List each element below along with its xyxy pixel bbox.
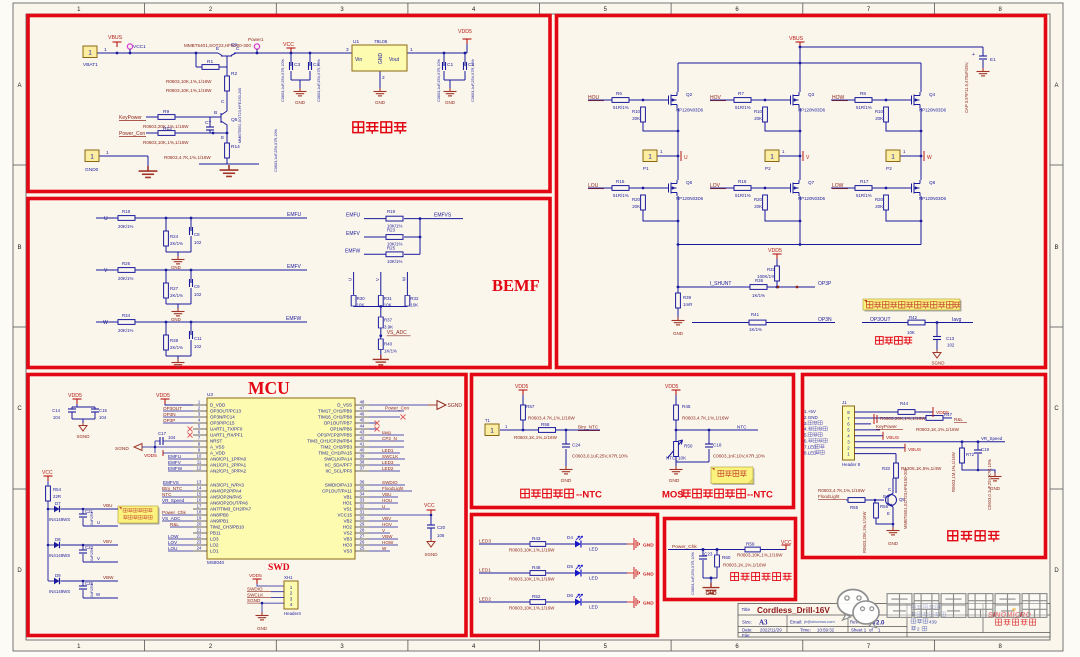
svg-text:36: 36 [360, 480, 365, 485]
svg-text:OP3N: OP3N [818, 317, 832, 323]
svg-text:104: 104 [168, 435, 176, 440]
svg-text:GND0: GND0 [85, 167, 99, 173]
svg-text:A3: A3 [759, 619, 768, 627]
svg-text:UART1_TX/PF0: UART1_TX/PF0 [210, 427, 243, 432]
svg-text:AN8/PB0: AN8/PB0 [210, 513, 229, 518]
svg-text:R7: R7 [738, 91, 744, 96]
svg-text:B: B [1054, 245, 1058, 251]
svg-text:R33: R33 [882, 466, 891, 471]
svg-text:R23: R23 [387, 228, 396, 233]
svg-text:B: B [214, 110, 217, 116]
svg-text:TIM2_CH1/PA15: TIM2_CH1/PA15 [318, 451, 352, 456]
svg-text:48: 48 [360, 400, 365, 405]
svg-text:U: U [97, 520, 100, 525]
svg-text:R19: R19 [387, 209, 396, 214]
svg-text:R0603,10K,1%,1/16W: R0603,10K,1%,1/16W [166, 79, 212, 84]
svg-text:R0603,4.7K,1%,1/16W: R0603,4.7K,1%,1/16W [818, 488, 865, 493]
svg-text:HOW: HOW [832, 95, 845, 101]
svg-text:VBV: VBV [382, 516, 392, 521]
svg-text:R14: R14 [231, 144, 240, 150]
svg-text:LED3: LED3 [479, 539, 491, 545]
svg-text:GND: GND [445, 100, 456, 105]
svg-text:SGND: SGND [448, 403, 463, 409]
svg-text:4: 4 [290, 602, 293, 607]
svg-text:A: A [1054, 83, 1058, 89]
svg-text:OP3OUT/PC13: OP3OUT/PC13 [210, 409, 242, 414]
svg-text:C18: C18 [713, 443, 722, 448]
svg-text:W: W [927, 155, 932, 161]
svg-text:R55: R55 [850, 505, 859, 510]
svg-text:C7: C7 [205, 120, 211, 126]
svg-text:104: 104 [53, 415, 61, 420]
svg-text:KeyPower: KeyPower [876, 424, 897, 429]
svg-text:3.: 3. [804, 421, 808, 426]
svg-text:EMFW: EMFW [168, 466, 183, 471]
svg-text:E1: E1 [990, 57, 996, 62]
svg-text:R8: R8 [860, 91, 866, 96]
svg-text:18: 18 [197, 510, 202, 515]
svg-text:C: C [1054, 406, 1059, 412]
svg-text:C0603,1uF,25V,X7R,10%: C0603,1uF,25V,X7R,10% [281, 58, 285, 102]
svg-text:U: U [382, 504, 385, 509]
svg-text:R2: R2 [231, 71, 237, 77]
svg-text:D: D [17, 568, 22, 574]
svg-text:33: 33 [360, 498, 365, 503]
svg-text:C0603,1uF,25V,X7R,10%: C0603,1uF,25V,X7R,10% [471, 58, 475, 102]
svg-text:LED1: LED1 [382, 448, 394, 453]
svg-text:V: V [375, 278, 380, 281]
svg-text:I_SHUNT: I_SHUNT [710, 281, 731, 287]
svg-text:OP3N: OP3N [163, 412, 176, 417]
svg-text:R48: R48 [532, 565, 541, 570]
svg-text:1K/1%: 1K/1% [749, 327, 762, 332]
svg-text:VDD5: VDD5 [458, 29, 472, 35]
svg-text:LED: LED [589, 547, 599, 552]
svg-text:LED3: LED3 [382, 460, 394, 465]
svg-text:XH1: XH1 [284, 575, 293, 580]
svg-text:E: E [216, 46, 219, 52]
svg-text:HO1: HO1 [343, 501, 353, 506]
svg-text:R0603,1K,1%,1/16W: R0603,1K,1%,1/16W [723, 563, 767, 568]
svg-text:3.9K: 3.9K [384, 325, 393, 330]
svg-text:PB11: PB11 [210, 531, 221, 536]
svg-text:AN7/TIM3_CH2/PA7: AN7/TIM3_CH2/PA7 [210, 507, 252, 512]
svg-text:A_VDD: A_VDD [210, 451, 226, 456]
svg-text:LED: LED [589, 576, 599, 581]
svg-text:BEMF: BEMF [492, 276, 540, 295]
svg-text:37: 37 [360, 466, 365, 471]
svg-text:R47: R47 [944, 412, 953, 417]
svg-text:LED1: LED1 [479, 568, 491, 574]
svg-text:R60: R60 [722, 555, 731, 560]
svg-text:HO2: HO2 [343, 525, 353, 530]
svg-text:C8: C8 [194, 232, 200, 237]
svg-text:AN0/CP1_1P/PA0: AN0/CP1_1P/PA0 [210, 457, 247, 462]
svg-text:R40: R40 [384, 342, 393, 347]
svg-text:AN6/OP2OUT/PA6: AN6/OP2OUT/PA6 [210, 501, 248, 506]
svg-text:28: 28 [360, 528, 365, 533]
svg-text:R0603,4.7K,1%,1/16W: R0603,4.7K,1%,1/16W [528, 416, 575, 421]
svg-text:HOU: HOU [588, 95, 600, 101]
svg-text:42: 42 [360, 436, 365, 441]
svg-text:File:: File: [742, 633, 750, 638]
svg-text:27: 27 [360, 534, 365, 539]
svg-text:OP3OUT: OP3OUT [870, 317, 891, 323]
svg-text:R50: R50 [684, 444, 693, 449]
svg-text:VBAT1: VBAT1 [83, 62, 98, 68]
svg-text:VS3: VS3 [343, 549, 352, 554]
svg-text:78L05: 78L05 [374, 39, 388, 45]
svg-text:OP3P: OP3P [818, 281, 832, 287]
svg-text:GND: GND [561, 478, 572, 484]
svg-text:12: 12 [197, 466, 202, 471]
svg-text:R13: R13 [163, 126, 172, 132]
svg-text:LOU: LOU [168, 546, 177, 551]
svg-text:31: 31 [360, 510, 365, 515]
svg-text:R30: R30 [357, 296, 366, 301]
svg-text:R25: R25 [387, 246, 396, 251]
svg-text:TIM17_CH1/PB9: TIM17_CH1/PB9 [318, 409, 353, 414]
svg-text:3: 3 [346, 47, 349, 53]
svg-text:LOW: LOW [832, 183, 844, 189]
svg-text:VS_ADC: VS_ADC [387, 330, 407, 336]
svg-text:IIC_SCL/PF6: IIC_SCL/PF6 [325, 469, 352, 474]
svg-text:V: V [97, 556, 100, 561]
svg-text:Power1: Power1 [248, 37, 264, 42]
svg-text:LO3: LO3 [210, 537, 219, 542]
svg-text:SWCLK/PA14: SWCLK/PA14 [324, 457, 352, 462]
svg-text:10:59:32: 10:59:32 [817, 628, 835, 633]
svg-text:GND: GND [643, 601, 654, 607]
svg-text:22: 22 [197, 534, 202, 539]
svg-text:R59: R59 [746, 542, 755, 547]
svg-text:R0603,20K,1%,1/16W: R0603,20K,1%,1/16W [862, 512, 867, 553]
svg-text:KeyPower: KeyPower [119, 115, 142, 121]
svg-text:R0603,10K,1%,1/16W: R0603,10K,1%,1/16W [509, 606, 555, 611]
svg-text:R&L: R&L [170, 522, 179, 527]
svg-text:VDD5: VDD5 [249, 573, 262, 579]
svg-text:EMFV: EMFV [168, 460, 182, 465]
svg-text:FloodLight: FloodLight [818, 494, 840, 499]
svg-text:R31: R31 [384, 296, 393, 301]
svg-text:R42: R42 [909, 315, 918, 320]
svg-text:NTC: NTC [162, 492, 172, 497]
svg-text:OP1P/CP2P/PB5: OP1P/CP2P/PB5 [317, 433, 352, 438]
svg-text:R15: R15 [616, 179, 625, 184]
svg-text:38: 38 [360, 460, 365, 465]
svg-text:10K: 10K [410, 303, 418, 308]
svg-text:SGND: SGND [247, 598, 261, 603]
svg-text:Cordless_Drill-16V: Cordless_Drill-16V [757, 606, 830, 615]
svg-text:VCC15: VCC15 [337, 513, 352, 518]
svg-text:LOV: LOV [710, 183, 721, 189]
svg-text:OP3OUT: OP3OUT [163, 406, 182, 411]
svg-text:SGND: SGND [931, 361, 945, 366]
svg-text:45: 45 [360, 418, 365, 423]
svg-text:C23: C23 [704, 552, 713, 557]
svg-text:U: U [684, 155, 688, 161]
svg-text:R27: R27 [170, 286, 179, 291]
svg-text:22R: 22R [53, 494, 61, 499]
svg-text:1: 1 [106, 150, 109, 156]
svg-text:EMFVS: EMFVS [163, 480, 179, 485]
svg-text:R18: R18 [122, 209, 131, 214]
svg-text:13: 13 [197, 480, 202, 485]
svg-text:R39: R39 [683, 295, 692, 300]
svg-text:AN2/CP1_3P/PA2: AN2/CP1_3P/PA2 [210, 469, 247, 474]
svg-text:SWCLK: SWCLK [247, 592, 264, 597]
svg-text:GND: GND [673, 331, 684, 336]
svg-text:2K/1%: 2K/1% [170, 241, 183, 246]
svg-text:GND: GND [378, 53, 384, 65]
svg-text:SGND: SGND [76, 434, 90, 439]
svg-text:R0603,10K,1%,1/16W: R0603,10K,1%,1/16W [509, 577, 555, 582]
svg-text:U3: U3 [207, 392, 213, 397]
svg-text:MMBT5551,SOT23,HFE150-200: MMBT5551,SOT23,HFE150-200 [903, 467, 908, 529]
svg-text:R9: R9 [163, 109, 169, 115]
svg-text:A: A [17, 83, 21, 89]
svg-text:2.GND: 2.GND [804, 415, 819, 420]
svg-text:R37: R37 [384, 318, 393, 323]
svg-text:2022/11/29: 2022/11/29 [760, 628, 782, 633]
svg-text:NRST: NRST [210, 439, 223, 444]
svg-text:VDD5: VDD5 [68, 393, 82, 399]
svg-text:Vin: Vin [355, 57, 362, 63]
svg-text:LOW: LOW [168, 534, 179, 539]
svg-text:C0603,1uF,25V,X7R,10%: C0603,1uF,25V,X7R,10% [691, 551, 695, 595]
svg-text:LED: LED [589, 605, 599, 610]
svg-text:C11: C11 [194, 336, 202, 341]
svg-text:C0603,0.1uF,25V,X7R,10%: C0603,0.1uF,25V,X7R,10% [572, 454, 628, 459]
svg-text:R44: R44 [900, 401, 909, 406]
svg-text:C20: C20 [437, 525, 446, 530]
svg-text:SGND: SGND [424, 552, 438, 557]
svg-text:Q2: Q2 [686, 92, 693, 97]
svg-text:R36: R36 [755, 278, 764, 283]
svg-text:GND: GND [643, 572, 654, 578]
svg-text:2K/1%: 2K/1% [170, 293, 183, 298]
svg-text:Header4: Header4 [284, 611, 301, 616]
svg-text:LOV: LOV [168, 540, 178, 545]
svg-text:Header 8: Header 8 [842, 462, 861, 467]
svg-text:44: 44 [360, 424, 365, 429]
svg-text:D_VDD: D_VDD [210, 403, 226, 408]
svg-text:R0603,1K,1%,1/16W: R0603,1K,1%,1/16W [916, 427, 960, 432]
svg-text:FloodLight: FloodLight [382, 486, 404, 491]
svg-text:Size:: Size: [742, 620, 752, 625]
svg-text:OP3P/PC15: OP3P/PC15 [210, 421, 235, 426]
svg-text:43: 43 [360, 430, 365, 435]
svg-text:EMFW: EMFW [286, 316, 302, 322]
svg-text:D_VSS: D_VSS [337, 403, 352, 408]
svg-text:Q6: Q6 [686, 180, 693, 185]
svg-text:AN9/PB1: AN9/PB1 [210, 519, 229, 524]
svg-text:P3: P3 [886, 166, 892, 171]
svg-text:--NTC: --NTC [747, 490, 773, 501]
svg-text:C: C [888, 487, 891, 492]
svg-text:47: 47 [360, 406, 365, 411]
svg-text:OP3N/PC14: OP3N/PC14 [210, 415, 235, 420]
svg-text:24: 24 [197, 546, 202, 551]
svg-text:GND: GND [171, 265, 181, 270]
svg-text:SGND: SGND [115, 446, 129, 452]
svg-text:VB1: VB1 [343, 495, 352, 500]
svg-text:Q8: Q8 [929, 180, 936, 185]
svg-text:VS2: VS2 [343, 531, 352, 536]
svg-text:10K: 10K [907, 330, 915, 335]
svg-text:SWDIO: SWDIO [247, 587, 263, 592]
svg-text:R0603,10K,1%,1/16W: R0603,10K,1%,1/16W [509, 548, 555, 553]
svg-text:Btry_NTC: Btry_NTC [162, 486, 183, 491]
svg-text:34: 34 [360, 492, 365, 497]
svg-text:R72: R72 [966, 452, 975, 457]
svg-text:C0603,1uF,25V,X7R,10%: C0603,1uF,25V,X7R,10% [317, 58, 321, 102]
svg-text:jh@sinomos.com: jh@sinomos.com [803, 619, 835, 624]
svg-text:OP1OUT/PB7: OP1OUT/PB7 [324, 421, 353, 426]
svg-text:GND: GND [888, 541, 899, 546]
svg-text:104: 104 [99, 415, 107, 420]
svg-text:U: U [348, 278, 353, 281]
svg-text:E: E [887, 511, 890, 516]
svg-text:1: 1 [104, 47, 107, 53]
svg-text:23: 23 [197, 540, 202, 545]
svg-text:10K: 10K [357, 303, 365, 308]
svg-text:C0603,0.1uF,25V,X7R,10%: C0603,0.1uF,25V,X7R,10% [987, 459, 992, 510]
svg-text:VDD5: VDD5 [156, 393, 170, 399]
svg-text:VCC: VCC [283, 42, 294, 48]
svg-text:15: 15 [197, 492, 202, 497]
svg-text:LED2: LED2 [382, 466, 394, 471]
svg-text:D5: D5 [567, 564, 573, 569]
svg-text:Iavg: Iavg [952, 317, 962, 323]
svg-text:Q7: Q7 [808, 180, 815, 185]
svg-text:MMBT5551,SOT23,HFE150-200: MMBT5551,SOT23,HFE150-200 [238, 88, 242, 143]
svg-text:26: 26 [360, 540, 365, 545]
svg-text:GND: GND [669, 478, 680, 484]
svg-text:Title: Title [742, 607, 751, 612]
svg-text:P1: P1 [643, 166, 649, 171]
svg-text:VS1: VS1 [343, 507, 352, 512]
svg-text:11: 11 [197, 460, 202, 465]
svg-text:TIM2_CH3/PB10: TIM2_CH3/PB10 [210, 525, 245, 530]
svg-text:R0603,4.7K,1%,1/16W: R0603,4.7K,1%,1/16W [164, 155, 211, 160]
svg-text:2: 2 [290, 591, 293, 596]
svg-text:VDD5: VDD5 [144, 453, 157, 459]
svg-text:CP1OUT/PA11: CP1OUT/PA11 [322, 489, 352, 494]
svg-text:HOV: HOV [382, 522, 393, 527]
svg-text:TIM2_CH2/PB3: TIM2_CH2/PB3 [320, 445, 352, 450]
svg-text:MS8040: MS8040 [207, 560, 225, 565]
svg-text:2K/1%: 2K/1% [170, 345, 183, 350]
svg-text:VB2: VB2 [343, 519, 352, 524]
svg-text:R6: R6 [616, 91, 622, 96]
svg-text:106: 106 [437, 533, 445, 538]
svg-text:VDD5: VDD5 [515, 384, 529, 390]
svg-text:R54: R54 [53, 487, 62, 492]
svg-text:R0603,10K,1%,1/16W: R0603,10K,1%,1/16W [143, 140, 189, 145]
svg-text:GND: GND [375, 100, 386, 105]
svg-text:1: 1 [410, 47, 413, 53]
svg-text:D6: D6 [567, 593, 573, 598]
svg-text:SWCLK: SWCLK [382, 454, 399, 459]
svg-text:OP3P: OP3P [163, 418, 175, 423]
svg-text:R0603,1M,1%,1/16W: R0603,1M,1%,1/16W [951, 452, 956, 492]
svg-text:VCC: VCC [424, 503, 435, 509]
svg-text:21: 21 [197, 528, 202, 533]
svg-text:20: 20 [197, 522, 202, 527]
svg-text:P2: P2 [765, 166, 771, 171]
svg-text:VBUS: VBUS [908, 447, 921, 453]
svg-text:C17: C17 [158, 431, 167, 436]
svg-text:SWD: SWD [268, 563, 290, 573]
svg-text:IIC_SDA/PF7: IIC_SDA/PF7 [325, 463, 353, 468]
svg-text:R0603,1K,1%,1/16W: R0603,1K,1%,1/16W [514, 435, 558, 440]
svg-text:Date:: Date: [742, 628, 753, 633]
svg-text:1K/1%: 1K/1% [752, 293, 765, 298]
svg-text:AN1/CP1_2P/PA1: AN1/CP1_2P/PA1 [210, 463, 247, 468]
svg-text:Time:: Time: [800, 628, 811, 633]
svg-text:R0603,4.7K,1%,1/16W: R0603,4.7K,1%,1/16W [682, 416, 729, 421]
svg-text:GND: GND [705, 591, 717, 597]
svg-text:2: 2 [917, 627, 920, 632]
svg-text:VB3: VB3 [343, 537, 352, 542]
svg-text:U1: U1 [353, 39, 359, 45]
svg-text:R&L: R&L [954, 417, 963, 422]
svg-text:1K/1%: 1K/1% [384, 349, 397, 354]
svg-text:Iavg: Iavg [382, 430, 391, 435]
svg-text:R1: R1 [207, 59, 213, 65]
svg-text:C: C [221, 99, 225, 105]
svg-text:46: 46 [360, 412, 365, 417]
svg-text:R17: R17 [860, 179, 869, 184]
svg-text:R45: R45 [682, 404, 691, 409]
svg-text:19: 19 [197, 516, 202, 521]
svg-text:IN4148WS: IN4148WS [49, 517, 70, 522]
svg-text:TIM3_CH1/CP2N/PB4: TIM3_CH1/CP2N/PB4 [307, 439, 352, 444]
svg-text:NTC_10K: NTC_10K [666, 456, 687, 461]
svg-text:GND: GND [643, 543, 654, 549]
svg-text:Q3: Q3 [808, 92, 815, 97]
svg-text:VBV: VBV [103, 539, 113, 544]
svg-text:B: B [17, 245, 21, 251]
svg-text:14: 14 [197, 486, 202, 491]
svg-text:25: 25 [360, 546, 365, 551]
svg-text:C13: C13 [946, 336, 955, 341]
svg-text:AN4/OP2P/PA4: AN4/OP2P/PA4 [210, 489, 242, 494]
svg-text:Power_Con: Power_Con [119, 131, 145, 137]
svg-text:EMFW: EMFW [345, 248, 361, 254]
svg-text:32: 32 [360, 504, 365, 509]
svg-text:10: 10 [197, 454, 202, 459]
svg-text:4.: 4. [804, 427, 808, 432]
svg-text:20K/1%: 20K/1% [118, 276, 133, 281]
svg-text:B: B [883, 494, 886, 499]
svg-text:R0603,10K,1%,1/16W: R0603,10K,1%,1/16W [166, 88, 212, 93]
svg-text:R0603,20K,1%,1/16W: R0603,20K,1%,1/16W [880, 416, 926, 421]
svg-text:LO2: LO2 [210, 543, 219, 548]
svg-text:LOU: LOU [588, 183, 599, 189]
svg-text:1: 1 [290, 585, 293, 590]
svg-text:VBUS: VBUS [108, 35, 123, 41]
svg-text:C: C [236, 46, 240, 52]
svg-text:HOU: HOU [382, 498, 392, 503]
svg-text:17: 17 [197, 504, 202, 509]
svg-text:CAP 3.5*9*11.5,470uF/35V,: CAP 3.5*9*11.5,470uF/35V, [964, 62, 969, 113]
svg-text:Sheet 1: Sheet 1 [851, 628, 867, 633]
svg-text:8.LED: 8.LED [804, 450, 817, 455]
svg-text:EMFVS: EMFVS [434, 213, 452, 219]
svg-text:R32: R32 [410, 296, 419, 301]
